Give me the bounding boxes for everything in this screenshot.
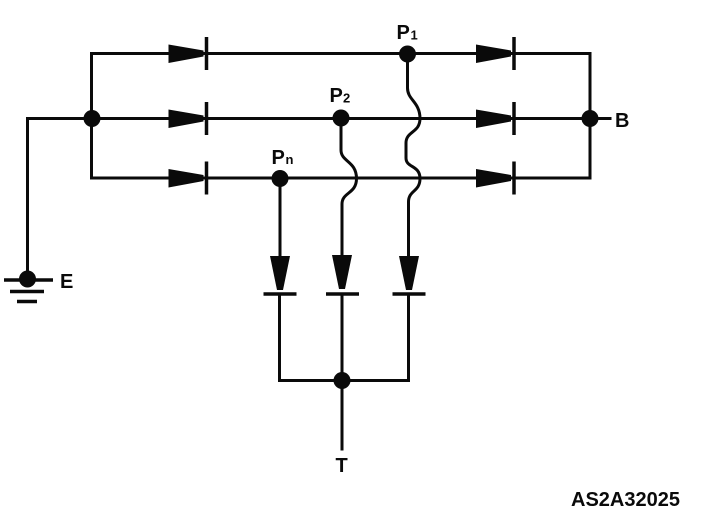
wire: left branch to ground E [28,119,92,273]
diode top-left (anode at left bus, cathode to P1 rail) [169,37,207,70]
wire: P2 column with hop over bottom rail [341,126,357,255]
wire: middle down-column below diode through T node [341,296,344,449]
label P2 [330,85,351,107]
svg-text:2: 2 [343,91,350,106]
diode down P2 column [326,255,359,294]
wire: bottom rail (net Pn row) [92,177,591,180]
wire: B terminal stub [590,117,610,120]
svg-text:T: T [336,455,348,477]
node P1 [399,46,416,63]
node B [582,110,599,127]
svg-text:B: B [615,110,629,132]
label Pn [272,147,294,169]
svg-text:P: P [397,22,410,44]
diode down Pn column (pointing down to T bus) [264,256,297,294]
wire: Pn column down to diode [279,184,282,256]
diode middle-left [169,102,207,135]
wire: right down-column below diode to bottom bus [407,296,410,381]
wire: right vertical bus joining three rails at B [589,54,592,179]
node: T bus junction [334,372,351,389]
svg-text:P: P [272,147,285,169]
label P1 [397,22,418,44]
diode middle-right [476,102,514,135]
wire: P1 column with hops over middle and bottom rails [406,62,420,256]
wire: top rail (net P1 row) [92,52,591,55]
svg-text:P: P [330,85,343,107]
node: left bus junction on middle rail [84,110,101,127]
diode down P1 column [393,256,426,294]
svg-text:AS2A32025: AS2A32025 [571,489,680,511]
wire: left vertical bus joining three rails [90,54,93,179]
diode top-right (to B bus) [476,37,514,70]
diode bottom-right [476,162,514,195]
node P2 [333,110,350,127]
ground symbol at E [4,280,53,302]
wire: bottom bus joining the three down-columns [280,379,409,382]
svg-text:E: E [60,271,73,293]
svg-text:n: n [286,152,294,167]
node Pn [272,170,289,187]
svg-text:1: 1 [411,28,418,43]
wire: left down-column below diode to bottom bus [278,296,281,381]
node E (ground junction dot) [19,271,36,288]
diode bottom-left [169,162,207,195]
wire: middle rail (net P2 row / B bus) [28,117,591,120]
